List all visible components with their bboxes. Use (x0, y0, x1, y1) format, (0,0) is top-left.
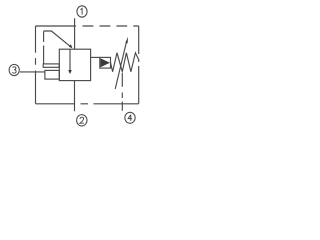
port 1 circle (77, 6, 87, 17)
port 4 dashed line (121, 73, 123, 111)
boundary left edge (dashed) (35, 26, 37, 104)
boundary bottom edge (dashed) (36, 103, 139, 105)
connector to pilot seat box (91, 56, 100, 58)
main valve box (59, 49, 90, 80)
spring zigzag (111, 53, 139, 72)
port 3 circle (9, 64, 19, 75)
port 3 line (20, 71, 45, 73)
piston flat box (43, 64, 59, 67)
pilot passage arrowhead (69, 44, 73, 48)
boundary top edge (dashed) (36, 25, 139, 27)
lower vent box (45, 70, 59, 79)
digit 1 (port 1 label) (81, 8, 83, 14)
main flow arrow line (69, 49, 71, 70)
pilot drain dashed vertical (43, 31, 45, 64)
adjustment arrow shaft (115, 41, 126, 89)
port 1 line (74, 18, 76, 49)
port 4 circle (125, 112, 135, 123)
digit 3 (port 3 label) (12, 67, 16, 73)
adjustment arrowhead (125, 37, 128, 44)
boundary right edge (dashed) (138, 26, 140, 104)
port 2 line (74, 81, 76, 112)
pilot passage polyline with corner (44, 31, 72, 47)
pilot seat box (100, 57, 111, 68)
port 2 circle (77, 115, 87, 126)
main flow arrowhead (68, 70, 72, 74)
digit 2 (port 2 label) (80, 117, 84, 123)
digit 4 (port 4 label) (128, 115, 132, 121)
seat triangle filled (100, 58, 110, 67)
